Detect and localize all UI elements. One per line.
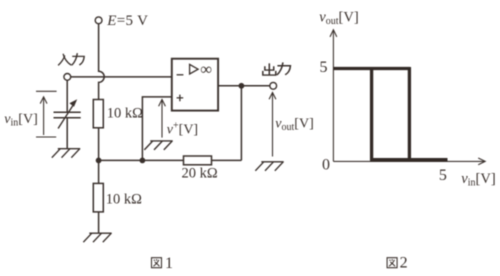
svg-text:20 kΩ: 20 kΩ [182, 166, 218, 182]
svg-text:5: 5 [439, 167, 447, 184]
svg-text:10 kΩ: 10 kΩ [107, 105, 143, 121]
svg-text:E=5 V: E=5 V [106, 13, 148, 29]
svg-text:v+[V]: v+[V] [167, 121, 198, 138]
svg-text:2: 2 [400, 255, 408, 272]
svg-text:5: 5 [320, 59, 328, 76]
svg-text:vin[V]: vin[V] [4, 112, 37, 129]
svg-text:vin[V]: vin[V] [461, 171, 495, 189]
svg-text:vout[V]: vout[V] [319, 9, 358, 27]
svg-text:0: 0 [322, 157, 330, 174]
svg-text:∞: ∞ [200, 60, 212, 79]
svg-text:vout[V]: vout[V] [275, 116, 313, 133]
svg-text:1: 1 [165, 255, 173, 272]
svg-text:10 kΩ: 10 kΩ [106, 192, 142, 208]
